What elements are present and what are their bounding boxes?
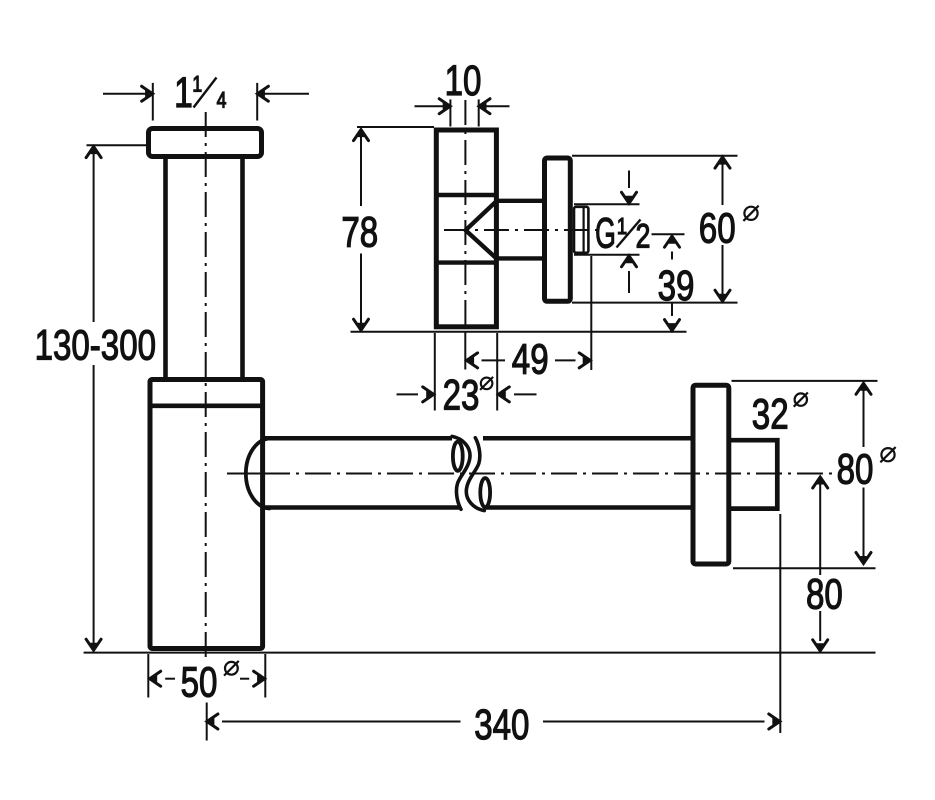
svg-text:1: 1 [192, 73, 202, 97]
svg-text:80: 80 [837, 445, 874, 493]
svg-text:78: 78 [341, 208, 378, 256]
svg-text:39: 39 [658, 262, 695, 310]
svg-text:60: 60 [699, 204, 736, 252]
svg-text:1: 1 [174, 69, 193, 117]
svg-text:G: G [595, 209, 616, 257]
svg-text:23: 23 [443, 372, 480, 420]
svg-text:130-300: 130-300 [35, 321, 156, 369]
svg-text:80: 80 [806, 571, 843, 619]
svg-text:49: 49 [512, 335, 549, 383]
svg-text:10: 10 [445, 57, 482, 105]
svg-text:340: 340 [474, 701, 529, 749]
svg-text:32: 32 [752, 391, 789, 439]
svg-text:4: 4 [217, 89, 227, 113]
svg-text:50: 50 [181, 659, 218, 707]
